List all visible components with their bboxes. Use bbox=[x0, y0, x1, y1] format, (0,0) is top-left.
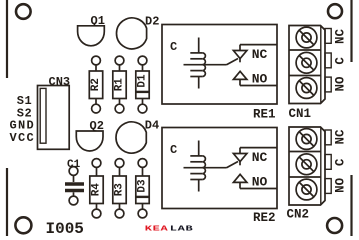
terminal block CN1 body bbox=[289, 26, 325, 104]
CN2 tab 1 bbox=[325, 130, 331, 145]
board edge left bottom segment bbox=[6, 168, 8, 236]
svg-text:CN3: CN3 bbox=[49, 75, 71, 89]
svg-text:R3: R3 bbox=[114, 183, 126, 197]
svg-text:R4: R4 bbox=[91, 183, 103, 197]
capacitor C1 bbox=[65, 167, 84, 205]
CN2 tab 2 bbox=[325, 155, 331, 170]
board edge left top segment bbox=[6, 0, 8, 78]
svg-text:Q2: Q2 bbox=[90, 119, 104, 133]
relay RE1 switch blade bbox=[227, 59, 239, 65]
diode D4 outline bbox=[116, 122, 146, 153]
svg-text:VCC: VCC bbox=[10, 131, 36, 145]
svg-text:D4: D4 bbox=[145, 119, 159, 133]
CN2 tab 3 bbox=[325, 179, 331, 194]
svg-text:D1: D1 bbox=[137, 74, 149, 88]
relay RE2 NC contact bbox=[233, 148, 277, 166]
svg-text:C: C bbox=[334, 158, 348, 166]
relay RE1 NO contact bbox=[233, 71, 277, 85]
relay RE2 coil bbox=[190, 141, 205, 192]
svg-text:D2: D2 bbox=[145, 15, 159, 29]
svg-text:C1: C1 bbox=[67, 159, 81, 171]
relay RE2 box bbox=[162, 128, 277, 209]
CN2 screw 2 bbox=[296, 154, 317, 175]
relay RE2 NO contact bbox=[233, 174, 277, 188]
svg-text:NC: NC bbox=[252, 47, 268, 62]
svg-text:NC: NC bbox=[334, 129, 348, 145]
board edge right top segment bbox=[350, 0, 352, 62]
resistor R4 bbox=[90, 159, 103, 218]
CN2 screw 3 bbox=[296, 179, 317, 200]
CN1 screw 3 bbox=[296, 78, 317, 99]
svg-text:R1: R1 bbox=[114, 78, 126, 92]
CN1 tab 3 bbox=[325, 77, 331, 92]
svg-text:I005: I005 bbox=[46, 220, 84, 236]
connector CN3 inner pin strip bbox=[40, 88, 46, 143]
relay RE1 NC contact bbox=[233, 45, 277, 63]
logo KEALAB bbox=[145, 225, 193, 233]
resistor R2 bbox=[89, 56, 102, 113]
svg-text:C: C bbox=[170, 143, 177, 157]
relay RE1 box bbox=[162, 25, 277, 105]
resistor R1 bbox=[113, 56, 126, 113]
svg-text:LAB: LAB bbox=[170, 225, 193, 233]
svg-text:NO: NO bbox=[252, 175, 268, 190]
mounting hole bottom-right bbox=[327, 218, 342, 233]
transistor Q1 outline bbox=[78, 26, 105, 46]
relay RE1 coil-to-switch wire bbox=[184, 64, 227, 66]
svg-text:R2: R2 bbox=[90, 78, 102, 91]
CN1 screw 2 bbox=[296, 52, 317, 73]
CN1 tab 2 bbox=[325, 53, 331, 68]
diode D2 outline bbox=[116, 18, 146, 49]
svg-text:RE2: RE2 bbox=[253, 211, 276, 225]
CN1 screw 1 bbox=[296, 27, 317, 48]
svg-text:CN2: CN2 bbox=[287, 208, 310, 222]
relay RE1 coil bbox=[190, 38, 205, 89]
svg-text:NC: NC bbox=[334, 29, 348, 45]
transistor Q2 outline bbox=[76, 131, 103, 151]
resistor R3 bbox=[113, 159, 126, 218]
svg-text:RE1: RE1 bbox=[253, 108, 276, 122]
terminal block CN2 body bbox=[289, 127, 325, 205]
board edge right bottom segment bbox=[350, 175, 352, 236]
mounting hole top-right bbox=[328, 4, 342, 18]
CN2 screw 1 bbox=[296, 129, 317, 150]
svg-text:KEA: KEA bbox=[145, 225, 169, 233]
relay RE2 switch blade bbox=[227, 162, 239, 168]
diode D3 bbox=[136, 159, 149, 218]
svg-text:NO: NO bbox=[334, 177, 348, 193]
svg-text:NO: NO bbox=[334, 76, 348, 92]
connector CN3 body bbox=[38, 86, 70, 150]
diode D1 bbox=[136, 56, 149, 113]
svg-text:CN1: CN1 bbox=[289, 107, 312, 121]
svg-text:C: C bbox=[170, 40, 177, 54]
svg-text:NO: NO bbox=[252, 72, 268, 87]
CN1 tab 1 bbox=[325, 29, 331, 44]
svg-text:D3: D3 bbox=[137, 179, 149, 193]
svg-text:NC: NC bbox=[252, 150, 268, 165]
svg-text:C: C bbox=[334, 57, 348, 65]
relay RE2 coil-to-switch wire bbox=[184, 167, 227, 169]
mounting hole bottom-left bbox=[15, 217, 31, 233]
mounting hole top-left bbox=[16, 4, 31, 19]
svg-text:Q1: Q1 bbox=[91, 14, 105, 28]
